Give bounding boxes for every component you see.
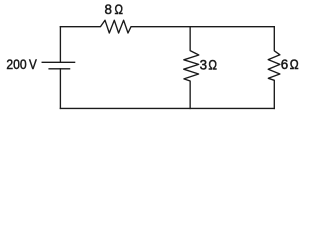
svg-text:V: V [29, 57, 37, 72]
svg-text:6: 6 [281, 57, 288, 72]
svg-text:Ω: Ω [208, 57, 217, 72]
svg-text:200: 200 [6, 57, 26, 72]
svg-text:Ω: Ω [115, 2, 124, 17]
svg-text:Ω: Ω [290, 57, 299, 72]
svg-text:8: 8 [105, 2, 112, 17]
svg-text:3: 3 [200, 57, 207, 72]
